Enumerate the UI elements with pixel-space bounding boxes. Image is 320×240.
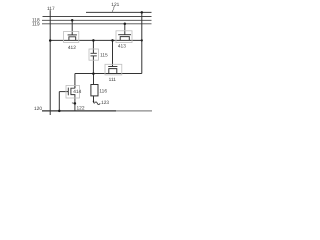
svg-text:111: 111 xyxy=(109,77,117,83)
svg-text:120: 120 xyxy=(34,106,42,112)
svg-text:115: 115 xyxy=(100,53,108,59)
svg-text:414: 414 xyxy=(73,89,81,95)
svg-text:123: 123 xyxy=(101,100,109,106)
svg-text:116: 116 xyxy=(99,88,107,94)
svg-text:119: 119 xyxy=(32,21,40,27)
svg-text:122: 122 xyxy=(76,106,84,112)
svg-text:413: 413 xyxy=(118,43,126,49)
svg-text:117: 117 xyxy=(47,6,55,12)
svg-text:121: 121 xyxy=(111,2,119,8)
svg-text:412: 412 xyxy=(68,45,76,51)
